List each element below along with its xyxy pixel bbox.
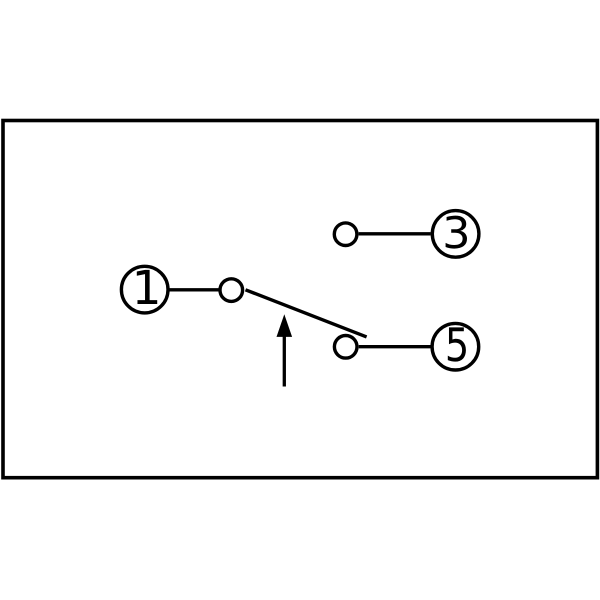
wire from contact 3 to terminal 3	[359, 232, 431, 235]
wire from terminal 1 to common contact	[169, 288, 220, 291]
common contact (pole)	[220, 279, 243, 302]
terminal 1	[121, 266, 168, 313]
contact 5	[334, 336, 357, 359]
wire from contact 5 to terminal 5	[359, 345, 431, 348]
terminal 5	[432, 323, 479, 370]
contact 3 (normally open)	[334, 223, 357, 246]
switch lever (movable contact arm)	[246, 290, 367, 337]
terminal 3	[432, 211, 479, 258]
actuation arrow	[277, 314, 293, 386]
